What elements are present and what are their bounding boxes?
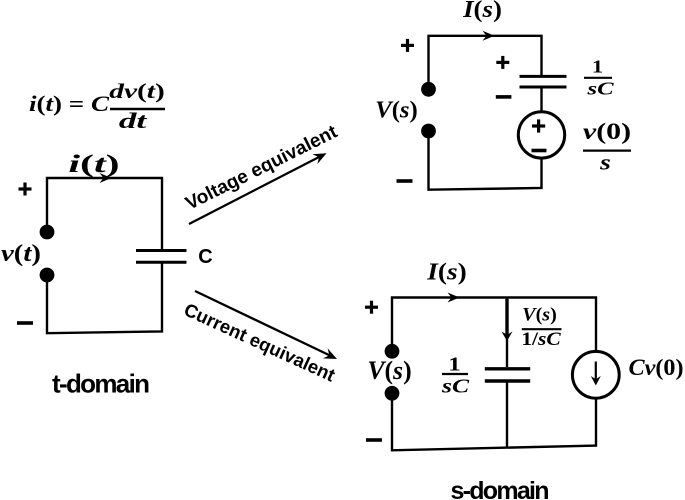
svg-text:dv(t): dv(t) [109, 79, 165, 103]
svg-text:s: s [599, 151, 611, 175]
svg-text:1: 1 [592, 57, 603, 76]
svg-text:i(t): i(t) [68, 150, 119, 177]
svg-text:V(s): V(s) [367, 356, 411, 385]
svg-text:C: C [198, 246, 212, 268]
svg-text:1/sC: 1/sC [521, 329, 561, 350]
svg-text:dt: dt [119, 109, 147, 133]
svg-text:I(s): I(s) [462, 0, 502, 23]
svg-text:s-domain: s-domain [451, 477, 550, 500]
svg-text:sC: sC [441, 375, 470, 397]
svg-text:Cv(0): Cv(0) [629, 355, 684, 380]
svg-text:1: 1 [448, 353, 460, 375]
svg-text:V(s): V(s) [375, 97, 418, 124]
svg-text:V(s): V(s) [522, 305, 557, 325]
svg-text:v(0): v(0) [583, 118, 631, 144]
svg-text:I(s): I(s) [426, 258, 467, 285]
svg-text:v(t): v(t) [1, 239, 41, 266]
svg-text:t-domain: t-domain [52, 369, 150, 399]
svg-text:sC: sC [586, 79, 614, 99]
svg-text:i(t) = C: i(t) = C [29, 92, 110, 116]
